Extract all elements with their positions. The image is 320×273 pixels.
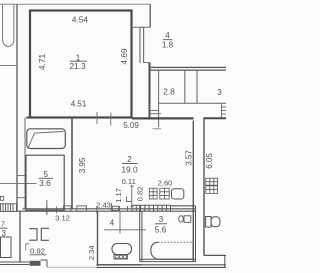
fraction line room4 [163, 39, 173, 41]
svg-text:4.51: 4.51 [71, 99, 87, 108]
door jamb right [41, 228, 49, 240]
right unit left wall [203, 118, 205, 255]
svg-text:2: 2 [127, 155, 132, 164]
svg-text:3.6: 3.6 [39, 178, 51, 188]
svg-text:0.82: 0.82 [136, 187, 145, 202]
wall seg below room1 left [26, 117, 30, 119]
closet top wall line a [149, 66, 227, 68]
radiator hatch box [1, 204, 17, 212]
dim tick a room1 wall [96, 112, 98, 124]
dim mark 4 horizontal [104, 229, 146, 231]
closet divider 2 [184, 70, 186, 103]
svg-text:3.95: 3.95 [78, 157, 87, 173]
main wall right [204, 117, 227, 119]
svg-text:4: 4 [110, 218, 115, 227]
svg-text:2.60: 2.60 [158, 179, 173, 188]
door block a [64, 206, 72, 211]
svg-text:2.34: 2.34 [87, 245, 96, 260]
left inner wall line [24, 118, 26, 210]
toilet tank squares [116, 255, 127, 258]
bottom right connector [224, 255, 226, 267]
svg-text:4.71: 4.71 [37, 54, 47, 71]
svg-text:0.11: 0.11 [122, 177, 136, 186]
right unit toilet bowl [211, 217, 220, 227]
wire top outer wall [0, 3, 151, 5]
WC bottom wall [98, 264, 142, 266]
hall bottom wall line a [0, 261, 29, 263]
balcony outer wall top [149, 4, 151, 27]
balcony shaft bottom [144, 62, 150, 64]
fraction line hall [0, 227, 8, 229]
dim tick b room2 wall [110, 113, 112, 126]
bottom outer wall line b [97, 266, 227, 268]
left outer wall [16, 4, 18, 211]
vent ladder right edge [222, 103, 227, 117]
door jamb left [29, 229, 37, 241]
washbasin room3 [179, 216, 191, 223]
faint lower boundary [47, 266, 97, 268]
svg-text:2.43: 2.43 [96, 200, 111, 209]
hall top wall line a [23, 208, 196, 210]
svg-text:21.3: 21.3 [69, 61, 86, 71]
door block b [77, 206, 87, 211]
dim underline 0.92 [30, 254, 47, 256]
room3 bottom wall line b [140, 261, 196, 263]
room 1 outline [30, 11, 132, 118]
svg-text:1.17: 1.17 [114, 188, 123, 203]
dim line 0.82 [130, 185, 134, 208]
wall room3 top right [171, 205, 196, 207]
room 5 outline [26, 155, 64, 210]
dim line room2 left lower [110, 203, 112, 211]
balcony divider [132, 26, 151, 28]
WC right wall line a [139, 205, 141, 261]
hatch wall room2 bottom [132, 205, 171, 211]
wall jamb ticks [47, 206, 128, 214]
room3 bottom wall line a [140, 258, 196, 260]
right unit vent box b [206, 186, 218, 194]
svg-text:3: 3 [159, 215, 164, 224]
room3 right wall line b [195, 206, 197, 262]
fraction line room1 [70, 60, 87, 62]
bottom outer wall line a [97, 264, 227, 266]
main wall mid [132, 117, 194, 119]
balcony shaft line a [139, 27, 141, 63]
wall right of corridor top [149, 63, 151, 119]
threshold corner horizontal [41, 259, 48, 261]
tiny box above radiator [1, 197, 4, 201]
right unit vent box a [206, 178, 218, 185]
cistern icon [172, 189, 184, 199]
closet bottom wall [159, 102, 226, 104]
bath room3 body [151, 242, 193, 259]
hall left wall [19, 211, 21, 262]
wall rung a [17, 175, 26, 177]
svg-text:3.57: 3.57 [185, 150, 194, 166]
svg-text:4.69: 4.69 [119, 48, 129, 65]
svg-text:6.05: 6.05 [205, 153, 214, 169]
vent box a [149, 188, 157, 199]
door block room2 left [112, 206, 119, 210]
balcony shaft line b [143, 27, 145, 63]
threshold corner vertical [46, 260, 48, 267]
svg-text:1.8: 1.8 [162, 40, 174, 49]
wall rung b [17, 197, 26, 199]
svg-text:3.12: 3.12 [55, 213, 70, 222]
dim corner 0.92 [26, 244, 30, 251]
corridor left wall [71, 118, 73, 210]
leader line room5 [0, 182, 37, 184]
right unit bottom wall [204, 254, 226, 256]
fraction line room3 [155, 223, 167, 225]
bath room3 right end [192, 242, 194, 259]
svg-text:3: 3 [2, 229, 7, 238]
svg-text:7: 7 [1, 222, 5, 229]
WC right wall line b [141, 211, 143, 261]
toilet tank WC [114, 255, 128, 260]
svg-text:5.09: 5.09 [123, 121, 139, 130]
closet top wall line b [149, 69, 227, 71]
stub line below wall [153, 128, 162, 130]
hall top wall line b [17, 210, 195, 212]
door step room2 [127, 197, 132, 202]
door leaf room5 [46, 200, 48, 215]
bathtub inner slope [29, 132, 64, 148]
closet divider 1 [158, 70, 160, 127]
right unit toilet tank [206, 217, 212, 228]
ledge line left [0, 65, 17, 67]
hall bottom wall line b [0, 264, 29, 266]
room2 and room3 right wall line a [192, 121, 194, 262]
stairwell U niche [3, 4, 14, 46]
svg-text:3: 3 [217, 87, 222, 97]
dim mark 4 vertical [119, 211, 121, 233]
WC left wall [97, 211, 99, 266]
vent box b [160, 188, 169, 199]
fraction line room5 [39, 177, 53, 179]
svg-text:4: 4 [165, 31, 170, 40]
wardrobe box [1, 237, 12, 258]
fraction line room2 [122, 163, 138, 165]
svg-text:4.54: 4.54 [72, 15, 89, 25]
door sill block [30, 261, 41, 266]
svg-text:5.6: 5.6 [155, 224, 167, 234]
bathtub room5 [27, 129, 66, 149]
svg-text:19.0: 19.0 [121, 164, 138, 174]
vent ladder left [150, 103, 161, 118]
svg-text:0.92: 0.92 [30, 246, 45, 255]
svg-text:2.8: 2.8 [163, 86, 175, 96]
closet divider 3 [196, 70, 198, 103]
bath room3 dashed top [158, 241, 193, 243]
toilet bowl WC [112, 244, 132, 255]
